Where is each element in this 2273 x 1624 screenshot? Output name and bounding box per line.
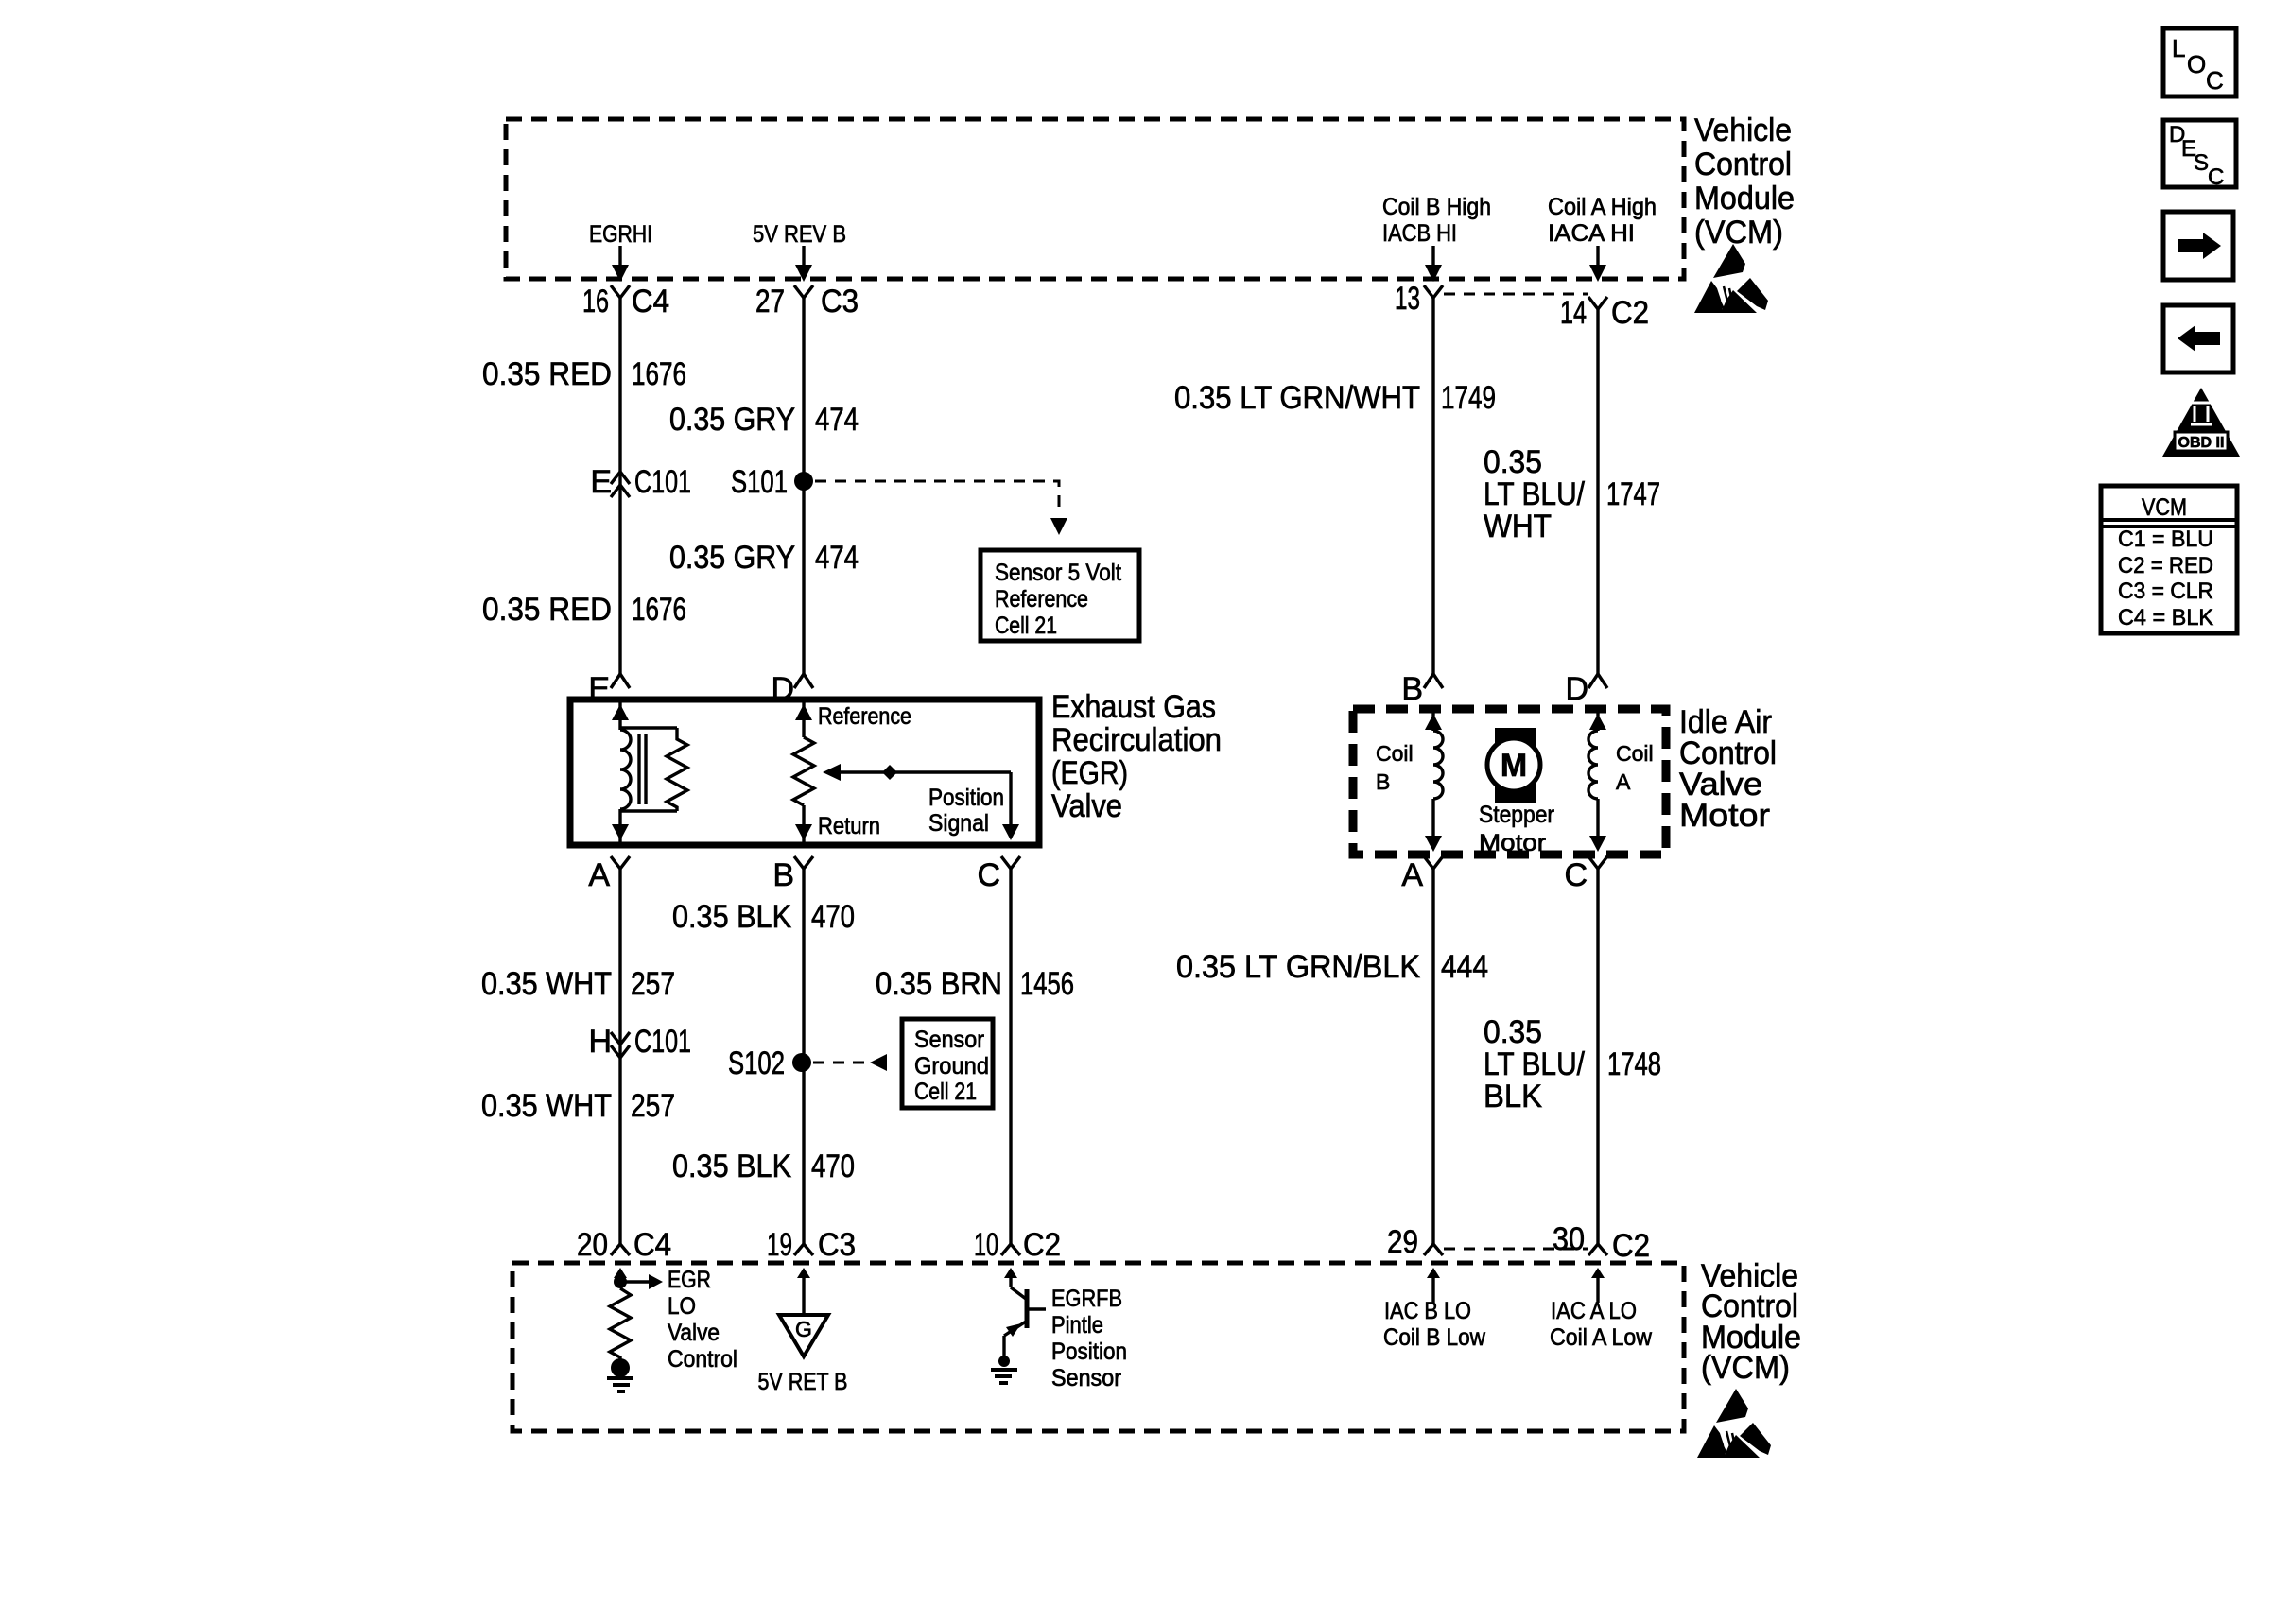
svg-text:Valve: Valve — [1051, 788, 1122, 824]
svg-text:C4: C4 — [632, 284, 669, 320]
svg-text:C2 = RED: C2 = RED — [2118, 553, 2213, 579]
svg-text:1748: 1748 — [1607, 1046, 1661, 1082]
svg-text:Coil A High: Coil A High — [1548, 194, 1657, 220]
svg-text:5V RET B: 5V RET B — [758, 1369, 848, 1395]
svg-text:Motor: Motor — [1479, 830, 1546, 856]
svg-text:Coil: Coil — [1376, 741, 1414, 766]
svg-text:10: 10 — [974, 1227, 998, 1263]
svg-text:B: B — [772, 857, 794, 893]
svg-text:Position: Position — [928, 785, 1004, 811]
svg-text:D: D — [1565, 671, 1588, 707]
svg-text:Exhaust Gas: Exhaust Gas — [1051, 689, 1216, 725]
svg-text:C3 = CLR: C3 = CLR — [2118, 579, 2213, 604]
svg-text:D: D — [771, 671, 794, 707]
svg-text:Motor: Motor — [1679, 798, 1770, 834]
svg-text:IAC A LO: IAC A LO — [1551, 1298, 1637, 1324]
svg-text:E: E — [588, 671, 610, 707]
svg-text:C101: C101 — [634, 464, 691, 500]
svg-text:S101: S101 — [731, 464, 788, 500]
svg-text:C2: C2 — [1611, 295, 1649, 331]
svg-text:444: 444 — [1441, 949, 1488, 985]
svg-text:C: C — [2206, 66, 2224, 95]
svg-text:19: 19 — [767, 1227, 792, 1263]
svg-text:Valve: Valve — [668, 1320, 720, 1346]
svg-text:0.35 BLK: 0.35 BLK — [672, 899, 791, 935]
svg-text:IAC B LO: IAC B LO — [1384, 1298, 1471, 1324]
svg-text:S102: S102 — [728, 1045, 785, 1081]
svg-text:Vehicle: Vehicle — [1694, 112, 1792, 148]
svg-text:0.35: 0.35 — [1484, 444, 1542, 480]
svg-text:C101: C101 — [634, 1024, 691, 1060]
svg-text:Coil A Low: Coil A Low — [1550, 1324, 1653, 1351]
svg-text:M: M — [1501, 748, 1527, 784]
svg-text:13: 13 — [1395, 281, 1420, 317]
svg-text:14: 14 — [1560, 295, 1587, 331]
svg-text:Sensor 5 Volt: Sensor 5 Volt — [995, 560, 1121, 586]
svg-text:S: S — [2194, 150, 2209, 176]
svg-text:Ground: Ground — [914, 1053, 989, 1080]
svg-text:VCM: VCM — [2142, 494, 2187, 521]
svg-text:5V REV B: 5V REV B — [753, 221, 846, 248]
svg-text:Coil B High: Coil B High — [1382, 194, 1491, 220]
svg-text:470: 470 — [811, 1149, 855, 1184]
svg-text:0.35 WHT: 0.35 WHT — [481, 966, 612, 1002]
svg-text:Reference: Reference — [995, 586, 1088, 613]
svg-text:Control: Control — [668, 1346, 737, 1373]
svg-text:470: 470 — [811, 899, 855, 935]
svg-text:0.35 GRY: 0.35 GRY — [669, 402, 795, 438]
svg-text:IACA HI: IACA HI — [1548, 220, 1635, 247]
svg-text:L: L — [2172, 34, 2185, 62]
svg-text:0.35 GRY: 0.35 GRY — [669, 540, 795, 576]
svg-text:0.35 RED: 0.35 RED — [482, 592, 612, 628]
svg-text:29: 29 — [1387, 1224, 1418, 1260]
svg-text:0.35 WHT: 0.35 WHT — [481, 1088, 612, 1124]
svg-text:B: B — [1401, 671, 1423, 707]
svg-text:C2: C2 — [1023, 1227, 1061, 1263]
svg-text:27: 27 — [755, 284, 785, 320]
svg-text:0.35 RED: 0.35 RED — [482, 356, 612, 392]
svg-text:C: C — [977, 857, 1000, 893]
svg-text:LT BLU/: LT BLU/ — [1484, 476, 1585, 512]
svg-text:OBD II: OBD II — [2178, 435, 2225, 451]
svg-text:LT BLU/: LT BLU/ — [1484, 1046, 1585, 1082]
svg-text:Cell 21: Cell 21 — [995, 613, 1057, 639]
svg-text:Sensor: Sensor — [1051, 1365, 1121, 1391]
svg-text:IACB HI: IACB HI — [1382, 220, 1457, 247]
svg-text:20: 20 — [577, 1227, 608, 1263]
svg-text:A: A — [1616, 769, 1631, 794]
svg-text:Cell 21: Cell 21 — [914, 1079, 977, 1105]
svg-text:C: C — [1564, 857, 1588, 893]
svg-text:1676: 1676 — [632, 592, 686, 628]
svg-text:1676: 1676 — [632, 356, 686, 392]
svg-text:O: O — [2187, 50, 2206, 78]
svg-text:Recirculation: Recirculation — [1051, 722, 1222, 758]
svg-text:Signal: Signal — [928, 810, 989, 837]
svg-text:Coil B Low: Coil B Low — [1383, 1324, 1486, 1351]
svg-text:G: G — [795, 1317, 812, 1341]
svg-text:EGR: EGR — [668, 1267, 711, 1293]
svg-text:0.35 BRN: 0.35 BRN — [876, 966, 1002, 1002]
svg-text:30: 30 — [1553, 1221, 1585, 1257]
svg-text:E: E — [590, 464, 612, 500]
svg-text:C2: C2 — [1612, 1228, 1650, 1264]
svg-text:Reference: Reference — [818, 703, 911, 730]
svg-text:0.35 LT GRN/BLK: 0.35 LT GRN/BLK — [1176, 949, 1420, 985]
svg-text:(EGR): (EGR) — [1051, 755, 1128, 791]
svg-text:Stepper: Stepper — [1479, 802, 1554, 828]
svg-text:C3: C3 — [818, 1227, 856, 1263]
svg-text:Return: Return — [818, 813, 880, 839]
svg-text:(VCM): (VCM) — [1701, 1350, 1790, 1386]
svg-text:474: 474 — [815, 540, 859, 576]
svg-text:B: B — [1376, 769, 1390, 794]
svg-text:Position: Position — [1051, 1339, 1127, 1365]
svg-text:257: 257 — [631, 1088, 675, 1124]
svg-text:LO: LO — [668, 1293, 696, 1320]
svg-text:A: A — [588, 857, 610, 893]
svg-text:Coil: Coil — [1616, 741, 1654, 766]
svg-text:H: H — [588, 1024, 612, 1060]
svg-text:C3: C3 — [821, 284, 859, 320]
svg-text:BLK: BLK — [1484, 1079, 1542, 1114]
svg-text:(VCM): (VCM) — [1694, 215, 1783, 251]
svg-text:A: A — [1401, 857, 1423, 893]
svg-text:0.35 LT GRN/WHT: 0.35 LT GRN/WHT — [1174, 380, 1420, 416]
svg-text:C4 = BLK: C4 = BLK — [2118, 605, 2213, 631]
svg-text:1749: 1749 — [1441, 380, 1496, 416]
svg-text:EGRFB: EGRFB — [1051, 1286, 1122, 1312]
svg-text:257: 257 — [631, 966, 675, 1002]
svg-text:WHT: WHT — [1484, 509, 1552, 544]
svg-text:Pintle: Pintle — [1051, 1312, 1103, 1339]
svg-text:0.35 BLK: 0.35 BLK — [672, 1149, 791, 1184]
svg-text:16: 16 — [582, 284, 609, 320]
svg-text:Sensor: Sensor — [914, 1027, 984, 1053]
svg-text:EGRHI: EGRHI — [589, 221, 652, 248]
svg-text:Control: Control — [1694, 147, 1792, 182]
svg-text:Module: Module — [1694, 181, 1795, 216]
svg-text:C1 = BLU: C1 = BLU — [2118, 527, 2213, 552]
svg-text:1456: 1456 — [1020, 966, 1074, 1002]
svg-text:0.35: 0.35 — [1484, 1014, 1542, 1050]
svg-text:474: 474 — [815, 402, 859, 438]
svg-text:C: C — [2208, 164, 2224, 190]
svg-text:C4: C4 — [633, 1227, 671, 1263]
svg-text:1747: 1747 — [1606, 476, 1660, 512]
